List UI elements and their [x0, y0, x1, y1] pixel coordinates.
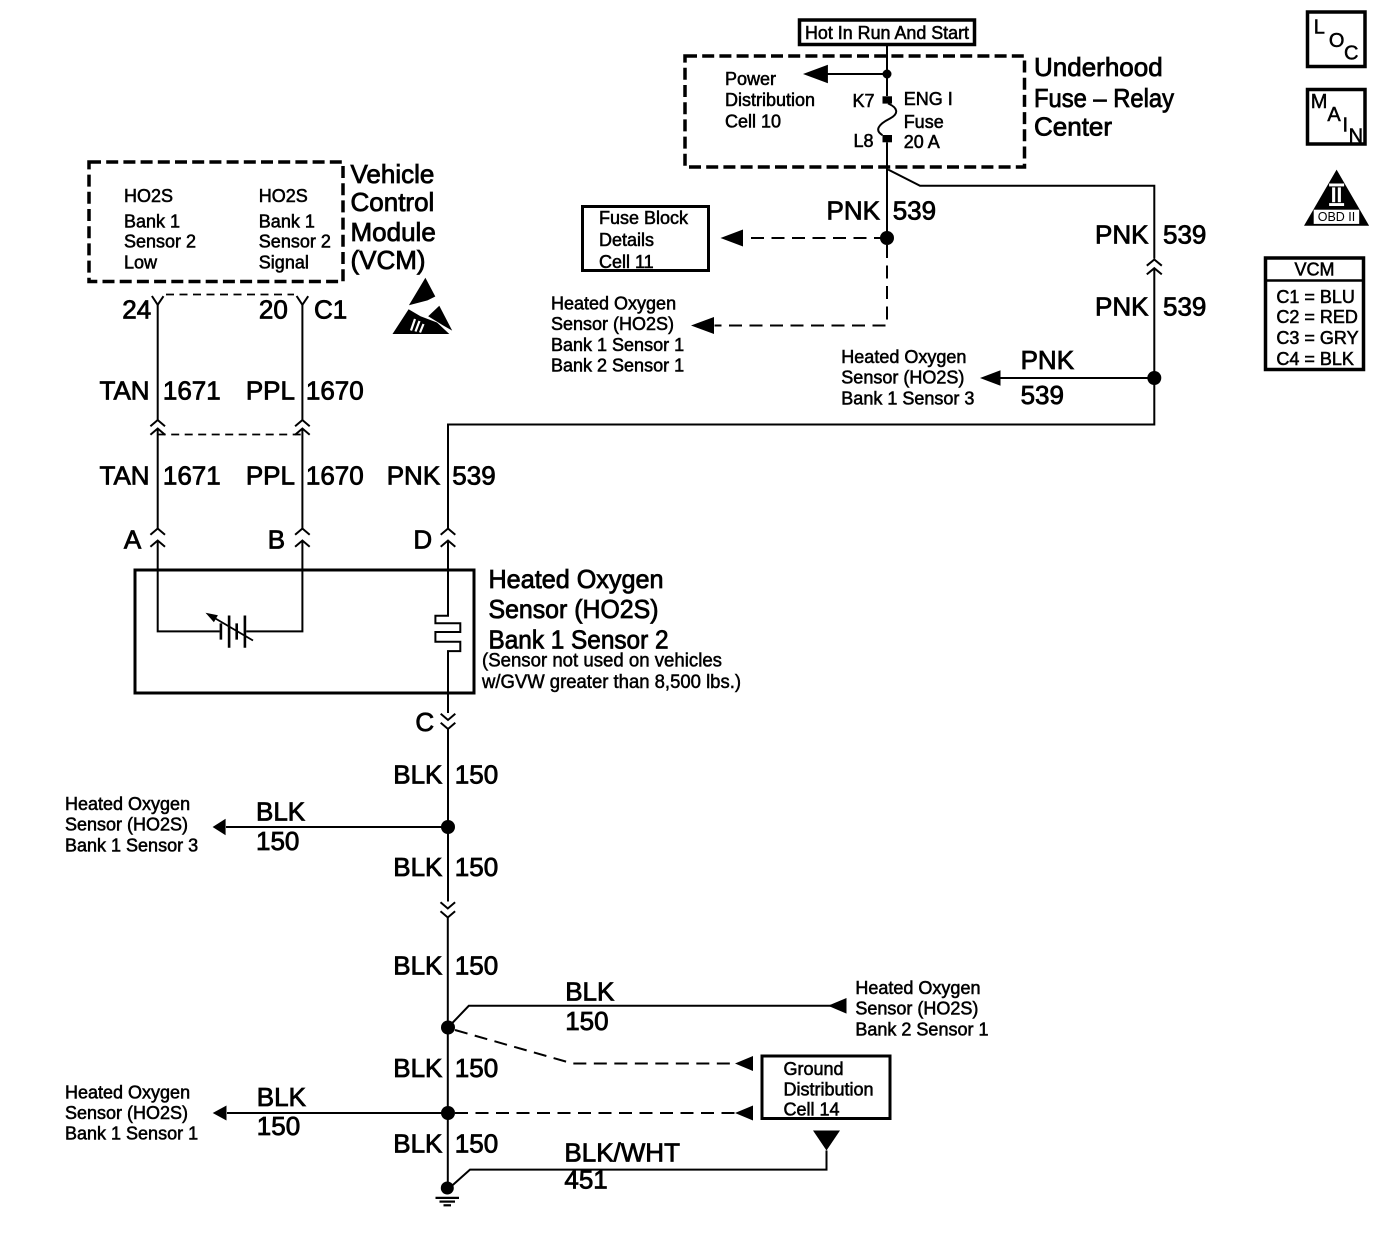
wire arrow to HO2S B1S3 left: [226, 826, 448, 828]
svg-text:M: M: [1311, 91, 1328, 113]
svg-text:Bank 1: Bank 1: [259, 212, 315, 232]
Vehicle Control Module (VCM) label: [351, 159, 436, 275]
svg-text:150: 150: [455, 1129, 498, 1159]
wire arrow to HO2S B1S1 left: [227, 1112, 448, 1114]
MAIN box: [1308, 90, 1366, 148]
svg-text:Cell 10: Cell 10: [725, 111, 781, 131]
wire PPL from pin 20: [301, 305, 303, 420]
svg-text:150: 150: [455, 1053, 498, 1083]
inline connector dashed line: [158, 434, 303, 436]
ESD symbol: [393, 278, 453, 334]
PPL 1670 label row2: [246, 460, 364, 490]
svg-text:C4 = BLK: C4 = BLK: [1276, 349, 1354, 369]
connector chevrons A: [150, 529, 165, 547]
svg-text:VCM: VCM: [1295, 259, 1335, 279]
svg-text:L8: L8: [853, 131, 873, 151]
svg-text:w/GVW greater than 8,500 lbs.): w/GVW greater than 8,500 lbs.): [481, 672, 741, 693]
wires into sensor box: [158, 541, 448, 571]
svg-text:Heated Oxygen: Heated Oxygen: [551, 294, 676, 314]
svg-text:539: 539: [1163, 292, 1206, 322]
PNK 539 label top: [827, 196, 937, 226]
Underhood Fuse-Relay Center label: [1034, 52, 1174, 142]
svg-text:PNK: PNK: [1095, 292, 1149, 322]
svg-text:Bank 1 Sensor 3: Bank 1 Sensor 3: [841, 388, 974, 408]
BLK 150 branch label left: [256, 797, 306, 856]
svg-text:Sensor (HO2S): Sensor (HO2S): [841, 368, 964, 388]
svg-text:C2 = RED: C2 = RED: [1276, 307, 1358, 327]
BLK wire down from C: [447, 729, 449, 902]
BLK 150 label row1: [393, 760, 498, 790]
wire B continues: [301, 429, 303, 529]
wire fuse output down to PNK junction: [886, 142, 888, 237]
svg-text:Heated Oxygen: Heated Oxygen: [489, 564, 664, 594]
pin 20 connector: [297, 296, 309, 305]
svg-text:150: 150: [565, 1006, 608, 1036]
svg-text:C1 = BLU: C1 = BLU: [1276, 287, 1355, 307]
svg-text:L: L: [1314, 17, 1325, 39]
HO2S Bank1Sensor3 left label: [65, 794, 198, 855]
Underhood Fuse-Relay Center dashed box: [685, 56, 1025, 167]
svg-text:Center: Center: [1034, 112, 1112, 142]
Heated Oxygen Sensor labels: [481, 564, 741, 693]
BLK/WHT 451 label: [564, 1138, 680, 1195]
connector chevrons B: [295, 529, 310, 547]
HO2S Bank1Sensor3 mid label: [841, 347, 974, 408]
svg-text:(VCM): (VCM): [351, 245, 426, 275]
OBD II triangle: [1304, 170, 1369, 226]
svg-text:150: 150: [256, 826, 299, 856]
svg-text:A: A: [124, 524, 142, 554]
svg-text:Fuse – Relay: Fuse – Relay: [1034, 83, 1174, 113]
svg-text:Sensor (HO2S): Sensor (HO2S): [489, 594, 659, 624]
BLK 150 label row4: [393, 1053, 498, 1083]
svg-text:451: 451: [564, 1165, 607, 1195]
svg-text:Distribution: Distribution: [784, 1079, 874, 1099]
HO2S Bank2Sensor1 label: [855, 978, 988, 1039]
svg-text:B: B: [268, 524, 285, 554]
sensing element plates: [221, 616, 245, 648]
VCM connector color table: [1266, 258, 1364, 370]
svg-text:Fuse: Fuse: [904, 112, 944, 132]
svg-text:C3 = GRY: C3 = GRY: [1276, 328, 1358, 348]
variable arrow across element: [211, 616, 254, 641]
svg-text:539: 539: [452, 460, 495, 490]
svg-text:Heated Oxygen: Heated Oxygen: [65, 794, 190, 814]
HO2S Bank1Sensor1 Bank2Sensor1 label: [551, 294, 684, 376]
svg-text:PPL: PPL: [246, 376, 295, 406]
TAN 1671 label row1: [100, 376, 221, 406]
ground symbol: [436, 1198, 460, 1205]
Hot In Run And Start box: [800, 20, 975, 45]
Ground Distribution Cell 14 box: [762, 1056, 890, 1120]
wire A continues: [157, 429, 159, 529]
wire arrow to Power Distribution: [824, 73, 887, 75]
svg-text:Power: Power: [725, 69, 776, 89]
svg-text:539: 539: [1163, 220, 1206, 250]
dashed wire down then left to HO2S B1S1/B2S1: [715, 245, 888, 326]
svg-text:Fuse Block: Fuse Block: [599, 208, 689, 228]
svg-text:Bank 1 Sensor 1: Bank 1 Sensor 1: [551, 335, 684, 355]
A B D labels: [124, 524, 432, 554]
HO2S Bank1Sensor1 left label: [65, 1083, 198, 1144]
svg-text:OBD II: OBD II: [1318, 210, 1356, 224]
svg-text:BLK: BLK: [256, 797, 306, 827]
svg-text:I: I: [1343, 115, 1349, 137]
svg-text:Details: Details: [599, 230, 654, 250]
svg-text:Underhood: Underhood: [1034, 52, 1163, 82]
svg-text:Low: Low: [124, 253, 158, 273]
svg-text:Cell 11: Cell 11: [599, 252, 654, 272]
svg-text:Distribution: Distribution: [725, 90, 815, 110]
svg-text:Sensor 2: Sensor 2: [124, 231, 196, 251]
svg-text:Sensor (HO2S): Sensor (HO2S): [855, 999, 978, 1019]
svg-text:A: A: [1327, 104, 1341, 126]
Vehicle Control Module dashed box: [89, 162, 343, 282]
wire TAN from pin 24: [157, 305, 159, 420]
Heated Oxygen Sensor box: [135, 570, 474, 693]
svg-text:BLK: BLK: [565, 977, 615, 1007]
svg-text:C1: C1: [314, 294, 347, 324]
dashed wire to Ground Distribution lower: [455, 1112, 753, 1114]
svg-text:Bank 2 Sensor 1: Bank 2 Sensor 1: [551, 356, 684, 376]
node B1S3 junction: [441, 820, 455, 834]
LOC box: [1308, 12, 1366, 67]
wire arrow PNK to HO2S B1S3: [997, 377, 1154, 379]
inline connector chevrons wire A: [150, 420, 165, 435]
svg-text:Module: Module: [351, 217, 436, 247]
svg-text:ENG I: ENG I: [904, 89, 953, 109]
connector chevrons D: [441, 529, 456, 547]
svg-text:BLK: BLK: [257, 1082, 307, 1112]
svg-text:539: 539: [893, 196, 936, 226]
svg-text:PNK: PNK: [1021, 345, 1075, 375]
ground node: [441, 1182, 454, 1195]
connector C chevrons: [441, 714, 456, 729]
svg-text:Bank 1 Sensor 3: Bank 1 Sensor 3: [65, 835, 198, 855]
svg-text:Hot In Run And Start: Hot In Run And Start: [805, 23, 969, 43]
heater element: [435, 570, 460, 713]
node at top wire: [883, 70, 892, 79]
pin labels 24 20 C1: [122, 294, 347, 324]
svg-text:N: N: [1349, 125, 1363, 147]
svg-text:150: 150: [455, 760, 498, 790]
svg-text:TAN: TAN: [100, 460, 150, 490]
inline connector chevrons on right PNK wire: [1147, 260, 1162, 275]
svg-text:BLK: BLK: [393, 951, 443, 981]
BLK 150 label row2: [393, 852, 498, 882]
svg-text:Cell 14: Cell 14: [784, 1100, 840, 1120]
inline chevrons down on BLK wire: [441, 902, 456, 917]
svg-text:HO2S: HO2S: [259, 186, 308, 206]
svg-text:D: D: [413, 524, 432, 554]
svg-text:1671: 1671: [163, 376, 221, 406]
svg-text:150: 150: [257, 1111, 300, 1141]
TAN 1671 label row2: [100, 460, 221, 490]
svg-text:HO2S: HO2S: [124, 186, 173, 206]
svg-text:BLK/WHT: BLK/WHT: [564, 1138, 680, 1168]
svg-text:PPL: PPL: [246, 460, 295, 490]
BLK 150 label row5: [393, 1129, 498, 1159]
svg-text:539: 539: [1021, 380, 1064, 410]
connector C1 dashed line between pins: [166, 294, 294, 296]
svg-text:BLK: BLK: [393, 852, 443, 882]
BLK/WHT 451 wire to Ground Distribution: [453, 1151, 827, 1186]
BLK wire continues: [447, 918, 449, 1186]
inline connector chevrons wire B: [295, 420, 310, 435]
wire branch diagonal to right PNK run: [888, 170, 1154, 259]
wire branch to HO2S B2S1 right: [448, 1006, 840, 1028]
PPL 1670 label row1: [246, 376, 364, 406]
svg-text:(Sensor not used on vehicles: (Sensor not used on vehicles: [482, 650, 722, 671]
svg-text:K7: K7: [852, 91, 874, 111]
BLK 150 branch label right: [565, 977, 615, 1036]
PNK 539 label right row1: [1095, 220, 1206, 250]
dashed wire to Fuse Block Details: [744, 237, 887, 239]
wire from Hot box to fuse K7: [886, 44, 888, 96]
PNK 539 label right row2: [1095, 292, 1206, 322]
svg-text:C: C: [1344, 42, 1358, 64]
svg-text:Sensor (HO2S): Sensor (HO2S): [551, 314, 674, 334]
VCM interior labels: [124, 186, 331, 272]
svg-text:TAN: TAN: [100, 376, 150, 406]
svg-text:Heated Oxygen: Heated Oxygen: [65, 1083, 190, 1103]
fuse F K7/L8 ENG I 20A: [852, 89, 952, 152]
svg-text:BLK: BLK: [393, 1129, 443, 1159]
svg-text:1671: 1671: [163, 460, 221, 490]
PNK 539 label row2: [387, 460, 496, 490]
Fuse Block Details Cell 11 box: [583, 207, 709, 272]
svg-text:1670: 1670: [306, 460, 364, 490]
svg-text:24: 24: [122, 294, 151, 324]
svg-text:150: 150: [455, 951, 498, 981]
svg-text:Bank 2 Sensor 1: Bank 2 Sensor 1: [855, 1019, 988, 1039]
wire right PNK run continues: [448, 268, 1154, 528]
svg-text:Bank 1: Bank 1: [124, 212, 180, 232]
BLK 150 label row3: [393, 951, 498, 981]
Power Distribution Cell 10 label: [725, 69, 815, 131]
svg-text:150: 150: [455, 852, 498, 882]
svg-text:PNK: PNK: [827, 196, 881, 226]
svg-text:Heated Oxygen: Heated Oxygen: [855, 978, 980, 998]
svg-text:1670: 1670: [306, 376, 364, 406]
PNK 539 arrow label: [1021, 345, 1075, 410]
svg-text:Sensor (HO2S): Sensor (HO2S): [65, 1103, 188, 1123]
node PNK junction at fuse output: [880, 231, 894, 245]
node right PNK junction: [1147, 371, 1161, 385]
svg-text:Heated Oxygen: Heated Oxygen: [841, 347, 966, 367]
BLK 150 branch label left lower: [257, 1082, 307, 1141]
svg-text:PNK: PNK: [1095, 220, 1149, 250]
node B1S1 junction: [441, 1106, 455, 1120]
svg-text:Bank 1 Sensor 1: Bank 1 Sensor 1: [65, 1124, 198, 1144]
svg-text:BLK: BLK: [393, 760, 443, 790]
dashed diagonal to Ground Distribution: [455, 1030, 753, 1064]
node B2S1 junction: [441, 1021, 455, 1035]
svg-text:BLK: BLK: [393, 1053, 443, 1083]
svg-text:C: C: [415, 707, 434, 737]
svg-text:20 A: 20 A: [904, 132, 940, 152]
svg-text:O: O: [1329, 30, 1345, 52]
svg-text:Vehicle: Vehicle: [351, 159, 435, 189]
pin 24 connector: [152, 296, 164, 305]
svg-text:PNK: PNK: [387, 460, 441, 490]
svg-text:Sensor 2: Sensor 2: [259, 231, 331, 251]
svg-text:Sensor (HO2S): Sensor (HO2S): [65, 815, 188, 835]
svg-text:Ground: Ground: [784, 1059, 844, 1079]
svg-text:20: 20: [259, 294, 288, 324]
svg-text:Control: Control: [351, 187, 435, 217]
svg-text:Signal: Signal: [259, 253, 309, 273]
sensing element wiring: [158, 570, 303, 631]
